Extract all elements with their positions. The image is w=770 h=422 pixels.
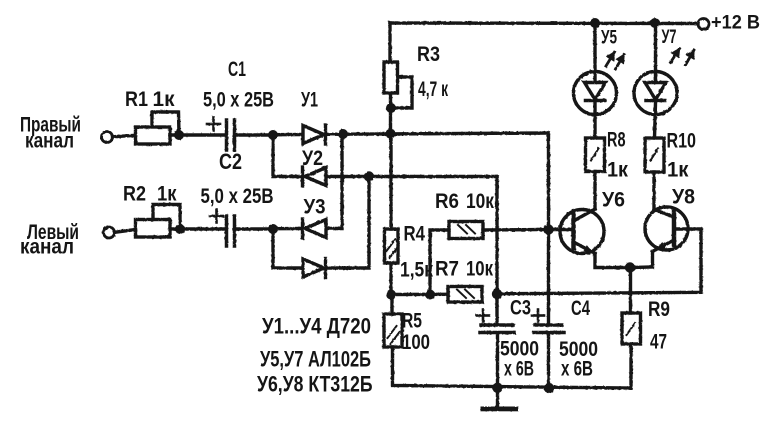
node A junction: [268, 130, 278, 140]
resistor R5: [384, 314, 402, 347]
svg-text:У3: У3: [304, 196, 326, 219]
capacitor C2: [210, 210, 235, 247]
svg-text:С4: С4: [571, 297, 590, 320]
svg-text:5,0 x 25В: 5,0 x 25В: [201, 185, 274, 208]
diode У1: [303, 125, 326, 144]
svg-text:У5: У5: [601, 28, 617, 49]
ground: [481, 388, 519, 411]
wire R10 to У8 collector: [652, 172, 655, 210]
svg-text:1к: 1к: [157, 183, 177, 206]
svg-text:x 6В: x 6В: [504, 358, 534, 381]
wire R2 to C2: [170, 227, 225, 230]
resistor R4: [385, 229, 399, 263]
wire R1 to C1: [170, 133, 225, 136]
node junction У1-У3: [338, 129, 348, 139]
wire R4 to node W: [389, 263, 392, 295]
wire node W to R7: [391, 293, 448, 297]
capacitor C1: [207, 118, 235, 151]
svg-text:+12 В: +12 В: [711, 13, 760, 34]
label: Правый канал: [20, 114, 81, 153]
wire LED У7 to R10: [655, 103, 656, 138]
svg-text:С3: С3: [510, 297, 531, 320]
resistor R8: [586, 138, 605, 172]
wire R3 to rail node V: [389, 93, 392, 134]
wire У6 emitter to node E: [595, 254, 630, 268]
svg-text:R6: R6: [435, 190, 459, 213]
wire node E to R9: [629, 268, 632, 314]
transistor У6: [560, 209, 604, 254]
wire У2 anode to node Y and on to node Z column: [327, 175, 497, 178]
node E junction emitters: [625, 262, 635, 272]
svg-text:R10: R10: [667, 130, 697, 153]
svg-text:У1: У1: [301, 89, 318, 112]
svg-text:канал: канал: [20, 236, 74, 259]
wire node V down to C4: [547, 230, 550, 324]
wire node A down to У2: [273, 135, 302, 177]
wire R6 right to node V: [483, 228, 549, 232]
wire C3 to ground rail: [496, 334, 499, 388]
svg-text:R9: R9: [648, 298, 670, 321]
svg-text:У5,У7 АЛ102Б: У5,У7 АЛ102Б: [260, 347, 371, 372]
node junction R1 wiper: [174, 130, 184, 140]
svg-text:У6: У6: [602, 189, 625, 212]
node junction R6 tap: [425, 290, 435, 300]
node junction У7 on +12 rail: [650, 18, 660, 28]
svg-text:47: 47: [650, 331, 667, 354]
diode У4: [303, 259, 326, 278]
wire У4 cathode to node Y: [327, 177, 369, 269]
svg-text:1,5к: 1,5к: [400, 259, 433, 282]
svg-text:1к: 1к: [667, 159, 689, 182]
wire rail down to node V: [547, 133, 550, 230]
resistor R10: [645, 138, 664, 172]
wire У1 to node V rail: [327, 133, 549, 134]
resistor R7: [448, 287, 482, 303]
node: +12V terminal: [698, 19, 709, 30]
svg-text:4,7 к: 4,7 к: [418, 78, 448, 101]
diode У2: [303, 167, 327, 186]
wire node A to diode У1: [273, 133, 302, 137]
svg-text:канал: канал: [25, 130, 74, 153]
wire rail node down to R4: [389, 134, 392, 229]
resistor R9: [622, 313, 641, 344]
wire C4 to ground rail: [547, 334, 550, 388]
svg-text:У6,У8 КТ312Б: У6,У8 КТ312Б: [257, 372, 373, 397]
svg-text:R8: R8: [607, 129, 626, 152]
wire rail corner down to R3: [388, 23, 391, 62]
node junction C3 ground: [492, 383, 502, 393]
node junction R3 wiper: [386, 103, 396, 113]
wire LED У5 to R8: [593, 103, 596, 138]
wire C2 to node B: [237, 227, 274, 230]
svg-text:С2: С2: [219, 149, 242, 174]
wire node V to У6 base: [549, 228, 572, 231]
svg-text:R7: R7: [435, 258, 459, 281]
wire input right to R1: [113, 135, 136, 137]
svg-text:1к: 1к: [153, 88, 175, 111]
wire R9 to ground rail: [629, 344, 632, 388]
node Y junction: [364, 171, 374, 181]
node junction R3-R4 column on rail: [386, 129, 396, 139]
svg-text:5,0 x 25В: 5,0 x 25В: [203, 89, 274, 112]
resistor R6: [449, 222, 483, 239]
wire rail to LED У5: [593, 23, 596, 81]
wire input left to R2: [115, 230, 136, 233]
wire rail to LED У7: [654, 23, 657, 81]
wire node Z to У8 base: [497, 229, 701, 294]
diode У3: [303, 219, 327, 238]
svg-text:R4: R4: [404, 223, 426, 246]
node: right channel input terminal: [102, 132, 113, 143]
svg-text:У1...У4 Д720: У1...У4 Д720: [262, 314, 371, 339]
svg-text:У2: У2: [302, 147, 323, 170]
label: Левый канал: [20, 221, 79, 259]
wire node W to R5: [390, 295, 393, 315]
resistor R1: [136, 112, 180, 144]
resistor R3: [384, 62, 412, 108]
node Z junction: [492, 289, 502, 299]
wire У3 anode up to У1 junction: [327, 134, 342, 229]
LED У5: [574, 52, 625, 115]
node junction C4 ground: [544, 383, 554, 393]
power rail +12V: [390, 21, 698, 25]
transistor У8: [645, 207, 688, 252]
svg-text:R2: R2: [123, 183, 146, 206]
wire R8 to У6 collector: [593, 172, 596, 210]
svg-text:R3: R3: [417, 43, 440, 66]
svg-text:С1: С1: [228, 58, 246, 81]
LED У7: [634, 49, 694, 115]
wire R6 left to node W: [430, 230, 449, 295]
resistor R2: [136, 205, 181, 238]
node W junction: [386, 290, 396, 300]
svg-text:10к: 10к: [466, 258, 493, 281]
capacitor C3: [477, 310, 514, 333]
svg-text:У7: У7: [662, 27, 677, 48]
svg-text:100: 100: [402, 331, 430, 354]
wire node Z to C3: [495, 294, 498, 324]
svg-text:R5: R5: [402, 310, 422, 333]
wire У8 emitter to node E: [630, 252, 653, 268]
svg-text:1к: 1к: [607, 159, 628, 182]
node junction У5 on +12 rail: [590, 18, 600, 28]
capacitor C4: [532, 310, 564, 333]
node B junction: [268, 224, 278, 234]
node V junction: [543, 224, 553, 234]
wire node Y column down to node Z: [495, 177, 498, 295]
svg-text:10к: 10к: [466, 190, 494, 213]
node junction R2 wiper: [175, 224, 185, 234]
wire node B to diode У3: [273, 227, 302, 231]
wire R5 to ground rail: [393, 347, 632, 388]
wire node B down to У4: [273, 229, 303, 268]
svg-text:x 6В: x 6В: [561, 358, 593, 381]
svg-text:R1: R1: [125, 88, 148, 111]
svg-text:У8: У8: [672, 186, 695, 209]
node: left channel input terminal: [104, 227, 115, 238]
wire C1 to node A: [237, 133, 274, 136]
